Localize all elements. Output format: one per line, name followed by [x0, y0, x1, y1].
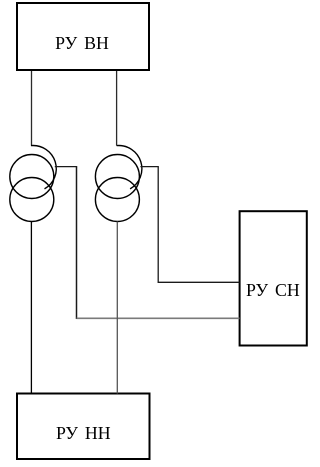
wire RU VN to transformer T2 (right drop) — [116, 71, 118, 146]
transformer T1 HV winding (top circle) — [10, 155, 54, 199]
transformer T1 LV winding (bottom circle) — [10, 178, 54, 222]
wire T2 arc to corner (horizontal) — [140, 166, 158, 168]
box RU VN (HV switchgear) — [17, 3, 149, 70]
transformer T2 MV winding (arc) — [117, 146, 142, 189]
wire T1 to RU SN (horizontal grey) — [77, 317, 240, 319]
transformer T2 LV winding (bottom circle) — [95, 178, 139, 222]
svg-text:РУ НН: РУ НН — [56, 423, 111, 443]
wire RU VN to transformer T1 (left drop) — [31, 71, 33, 146]
wire T2 to RU SN (horizontal) — [158, 281, 239, 283]
svg-text:РУ СН: РУ СН — [246, 280, 300, 300]
svg-text:РУ ВН: РУ ВН — [55, 33, 109, 53]
box RU NN (LV switchgear) — [17, 394, 150, 460]
wire T2 to RU NN (vertical grey) — [116, 222, 118, 394]
box RU SN (MV switchgear) — [240, 211, 307, 345]
transformer T1 MV winding (arc) — [31, 146, 56, 189]
wire T1 to RU NN (vertical) — [30, 222, 32, 394]
wire T1 corner down (vertical) — [76, 167, 78, 319]
wire T2 corner down (vertical) — [157, 167, 159, 283]
wire T1 arc to corner (horizontal) — [55, 166, 77, 168]
transformer T2 HV winding (top circle) — [95, 155, 139, 199]
